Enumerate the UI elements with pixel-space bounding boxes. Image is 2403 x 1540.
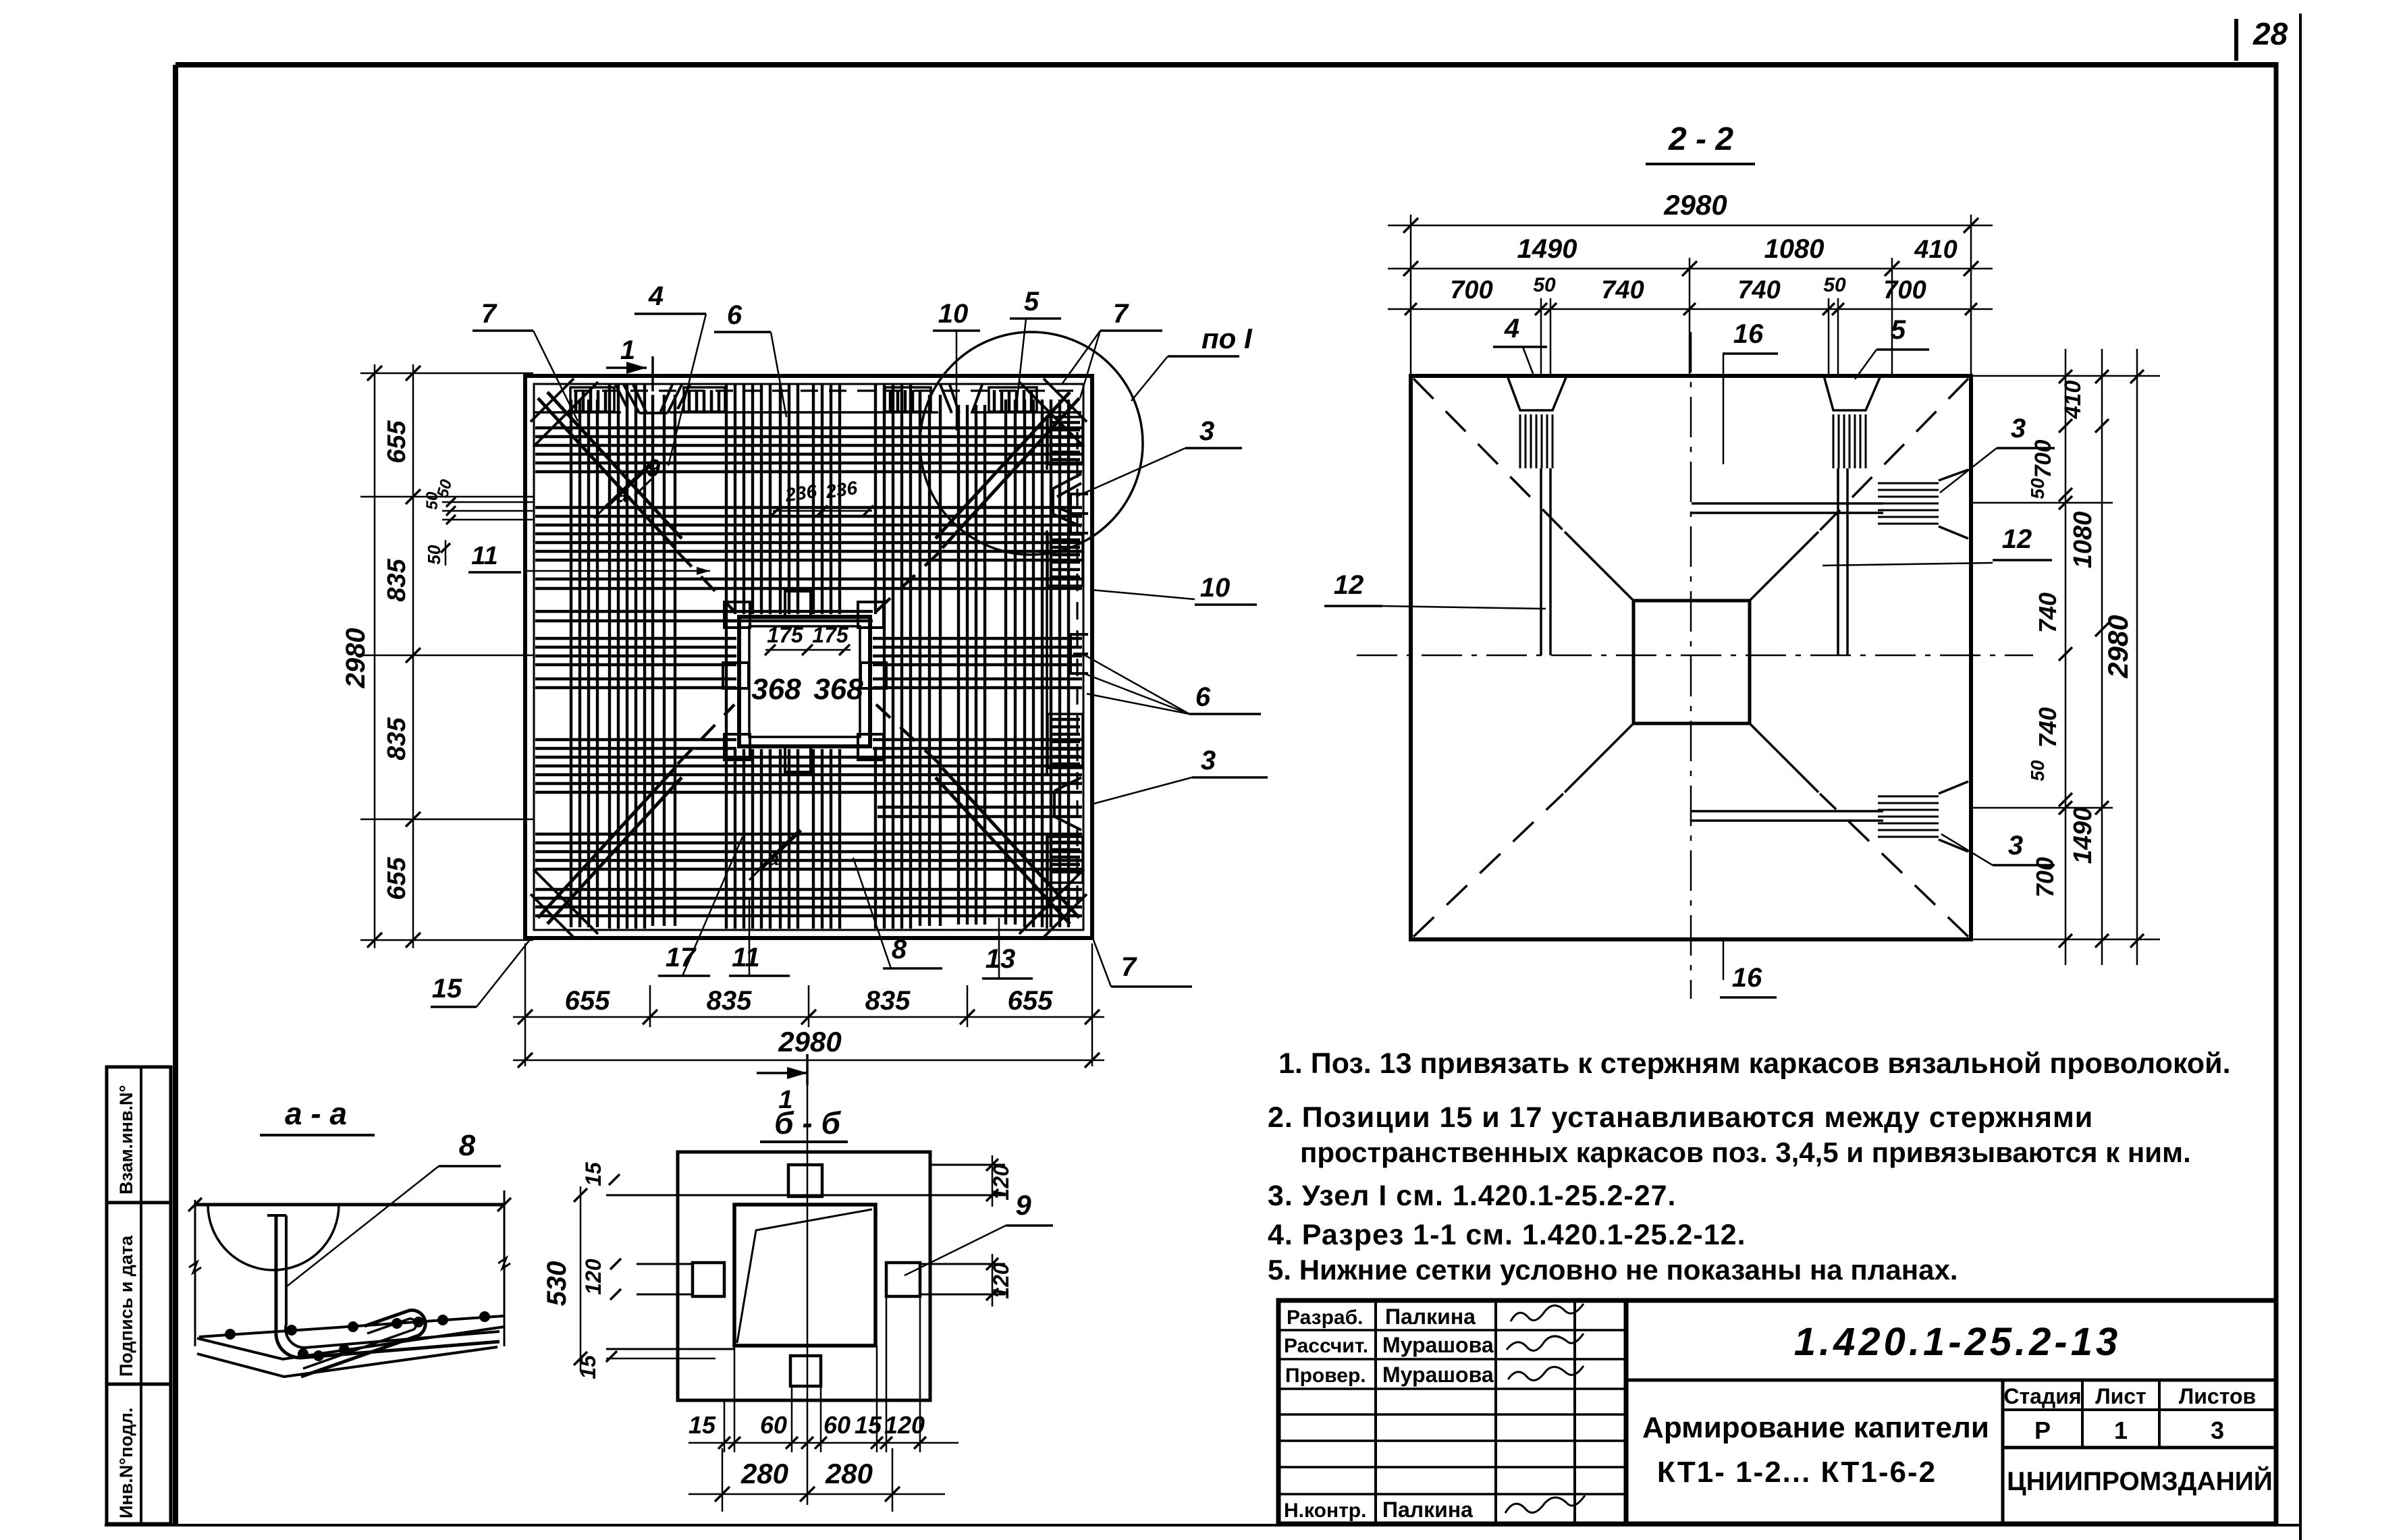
svg-text:6: 6 xyxy=(1195,682,1211,712)
plan horizontal rebar lines band 1 xyxy=(535,427,1082,429)
svg-text:Мурашова: Мурашова xyxy=(1382,1333,1494,1357)
plan vertical rebar lines fill group c xyxy=(1004,400,1007,925)
plan horizontal rebar lines band 2 xyxy=(535,506,1082,509)
plan vertical rebar lines group 6 xyxy=(874,385,877,614)
svg-text:120: 120 xyxy=(581,1259,605,1295)
svg-text:740: 740 xyxy=(1601,276,1644,304)
svg-text:10: 10 xyxy=(1200,573,1231,603)
svg-text:17: 17 xyxy=(666,943,697,972)
plan center column outer square xyxy=(739,617,870,746)
svg-text:3: 3 xyxy=(1201,746,1216,775)
plan right edge comb block 2 xyxy=(1048,534,1083,586)
plan detail circle po I xyxy=(920,332,1143,555)
svg-text:50: 50 xyxy=(1823,274,1846,296)
plan left overall dimension 2980 xyxy=(374,364,376,948)
detail b-b right top dim 120 xyxy=(930,1164,1005,1166)
section 2-2 label 16 bottom xyxy=(1723,939,1725,980)
detail b-b bottom dim row 15 60 60 15 120 xyxy=(688,1442,959,1444)
svg-text:700: 700 xyxy=(2031,857,2059,898)
svg-text:2 - 2: 2 - 2 xyxy=(1668,121,1733,157)
section 2-2 horizontal centerline dash-dot xyxy=(1357,655,2033,657)
section 2-2 dashed diagonal bottom-right xyxy=(1820,794,1968,937)
plan corner brace bottom-right diagonal xyxy=(942,768,1079,918)
svg-text:Армирование капители: Армирование капители xyxy=(1642,1411,1989,1444)
plan horizontal rebar lines band 7 xyxy=(535,888,1082,891)
svg-text:50: 50 xyxy=(2027,478,2048,499)
scanned page edge line right xyxy=(2299,13,2302,1540)
detail a-a sloped bar with U-hook xyxy=(301,1311,425,1377)
plan corner brace top-left diagonal xyxy=(538,398,675,548)
plan top section mark 1 xyxy=(606,366,647,369)
svg-text:а - а: а - а xyxy=(285,1096,347,1131)
title block outer border xyxy=(1278,1300,2276,1524)
plan horizontal rebar lines fill band c xyxy=(878,806,1082,808)
detail a-a hook bar position 8 vertical xyxy=(276,1215,500,1358)
title block doc number cell divider xyxy=(1626,1379,2276,1382)
plan horizontal rebar lines fill band b xyxy=(535,610,736,613)
plan top edge comb block 4 xyxy=(989,387,1037,412)
plan top band bottom line xyxy=(535,411,621,414)
svg-text:5: 5 xyxy=(1891,315,1906,345)
svg-text:7: 7 xyxy=(1113,299,1129,329)
svg-text:8: 8 xyxy=(459,1129,476,1162)
svg-text:1: 1 xyxy=(620,335,635,365)
svg-text:Палкина: Палкина xyxy=(1382,1497,1473,1522)
detail b-b horizontal line through top stirrup xyxy=(606,1194,1005,1197)
svg-text:Провер.: Провер. xyxy=(1285,1365,1366,1387)
svg-text:5: 5 xyxy=(1024,287,1039,317)
svg-text:пространственных каркасов поз.: пространственных каркасов поз. 3,4,5 и п… xyxy=(1300,1136,2191,1168)
plan horizontal rebar lines fill band a xyxy=(535,578,1082,580)
plan vertical rebar lines group 5 xyxy=(812,385,815,614)
svg-text:КТ1- 1-2... КТ1-6-2: КТ1- 1-2... КТ1-6-2 xyxy=(1657,1456,1937,1489)
section 2-2 vertical centerline dash-dot xyxy=(1690,332,1692,999)
detail a-a right edge xyxy=(504,1190,506,1346)
detail b-b right mid dim 120 xyxy=(992,1254,994,1307)
plan horizontal rebar lines band 4 xyxy=(535,678,736,680)
svg-text:Инв.N°подл.: Инв.N°подл. xyxy=(116,1408,136,1518)
svg-text:Рассчит.: Рассчит. xyxy=(1284,1335,1368,1357)
svg-text:5. Нижние сетки условно не пок: 5. Нижние сетки условно не показаны на п… xyxy=(1268,1254,1958,1286)
svg-text:а: а xyxy=(768,848,780,870)
plan right edge comb block 1 xyxy=(1048,417,1083,464)
svg-text:835: 835 xyxy=(707,986,752,1016)
svg-text:655: 655 xyxy=(383,420,411,463)
svg-text:368: 368 xyxy=(813,673,863,706)
title block row lines left part xyxy=(1278,1329,1626,1331)
section 2-2 dimension 2980 top xyxy=(1388,225,1993,227)
plan horizontal rebar lines band 3 xyxy=(535,637,736,640)
plan horizontal rebar lines band 6 xyxy=(535,833,1082,835)
svg-text:236: 236 xyxy=(783,480,818,505)
plan bottom extension lines xyxy=(524,943,526,1066)
svg-text:13: 13 xyxy=(986,944,1016,974)
section 2-2 dashed diagonal bottom-left xyxy=(1413,794,1563,937)
section 2-2 inner column square xyxy=(1633,601,1750,723)
plan view outer border square xyxy=(525,376,1092,938)
svg-text:740: 740 xyxy=(2034,707,2061,748)
section 2-2 solid slope diagonals at column xyxy=(1565,532,1633,601)
detail b-b bottom dim row 280 280 xyxy=(688,1493,945,1495)
plan vertical rebar lines group 4 xyxy=(779,385,782,614)
svg-text:3: 3 xyxy=(2011,414,2026,443)
svg-text:120: 120 xyxy=(989,1164,1013,1201)
plan horizontal rebar lines band 5 xyxy=(535,738,736,741)
svg-text:15: 15 xyxy=(576,1354,600,1379)
svg-text:Разраб.: Разраб. xyxy=(1287,1307,1363,1329)
svg-text:1. Поз. 13 привязать к стержня: 1. Поз. 13 привязать к стержням каркасов… xyxy=(1278,1047,2231,1080)
detail b-b left dimension 530 xyxy=(580,1186,582,1371)
detail b-b left stirrup square xyxy=(693,1263,724,1296)
title block signature squiggles xyxy=(1511,1304,1584,1321)
section 2-2 right overall dimension 2980 xyxy=(2136,349,2138,965)
svg-text:655: 655 xyxy=(565,986,610,1016)
plan vertical rebar lines group 8 xyxy=(1023,400,1026,927)
plan section cut mark a-a bottom-left xyxy=(760,830,801,869)
svg-text:50: 50 xyxy=(1533,274,1556,296)
svg-text:368: 368 xyxy=(751,673,801,706)
plan corner brace top-right diagonal xyxy=(942,398,1079,548)
svg-text:Мурашова: Мурашова xyxy=(1382,1363,1494,1387)
svg-text:16: 16 xyxy=(1732,963,1762,993)
detail b-b mesh diagonal line xyxy=(737,1209,872,1343)
svg-text:740: 740 xyxy=(1737,276,1780,304)
svg-text:16: 16 xyxy=(1733,319,1764,349)
svg-text:700: 700 xyxy=(1450,276,1492,304)
svg-text:ЦНИИПРОМЗДАНИЙ: ЦНИИПРОМЗДАНИЙ xyxy=(2007,1466,2273,1496)
section 2-2 dimension row 1490 1080 410 xyxy=(1388,268,1993,270)
plan left extension lines xyxy=(360,373,533,375)
plan vertical rebar lines group 1 xyxy=(570,400,572,927)
plan right funnel 1 xyxy=(1053,474,1081,489)
svg-text:3: 3 xyxy=(1199,416,1214,446)
svg-text:236: 236 xyxy=(823,477,859,502)
detail b-b outer square xyxy=(678,1152,930,1400)
svg-text:2. Позиции 15 и 17 устанавлив: 2. Позиции 15 и 17 устанавливаются между… xyxy=(1268,1101,2093,1134)
plan right edge E-shape anchor 2 xyxy=(1071,634,1088,673)
detail b-b extension line below inner square xyxy=(606,1348,734,1350)
svg-text:15: 15 xyxy=(581,1161,605,1186)
left margin stamp box Vzam.inv.N xyxy=(107,1067,171,1203)
plan top funnel 1 hatches xyxy=(616,385,628,409)
section 2-2 carcass 4 funnel and bars xyxy=(1507,376,1567,410)
svg-text:Палкина: Палкина xyxy=(1385,1304,1476,1329)
detail b-b right stirrup square xyxy=(886,1263,920,1296)
svg-text:Лист: Лист xyxy=(2095,1384,2146,1408)
detail a-a semicircle arc xyxy=(208,1205,339,1270)
svg-text:1.420.1-25.2-13: 1.420.1-25.2-13 xyxy=(1794,1320,2122,1364)
svg-text:по I: по I xyxy=(1201,323,1253,354)
drawing frame border xyxy=(175,62,2276,67)
svg-text:Стадия: Стадия xyxy=(2003,1384,2081,1408)
plan center column inner square xyxy=(749,626,860,737)
svg-text:2980: 2980 xyxy=(341,628,371,689)
svg-text:15: 15 xyxy=(432,974,462,1003)
svg-text:655: 655 xyxy=(1008,986,1053,1016)
left margin stamp box Inv.N podl xyxy=(107,1384,171,1524)
svg-text:655: 655 xyxy=(383,856,411,900)
plan view inner border square xyxy=(534,384,1083,930)
plan vertical rebar lines group 7 xyxy=(957,405,960,925)
svg-text:1080: 1080 xyxy=(2069,512,2097,569)
svg-text:2980: 2980 xyxy=(778,1026,841,1057)
svg-text:Листов: Листов xyxy=(2179,1384,2256,1408)
title block vertical dividers left part xyxy=(1374,1300,1377,1524)
plan bottom section mark 1 xyxy=(757,1072,807,1074)
plan vertical rebar lines fill group a xyxy=(651,395,654,926)
svg-text:1490: 1490 xyxy=(1517,234,1577,264)
detail a-a slab top line xyxy=(195,1203,505,1207)
plan corner brace bottom-left diagonal xyxy=(538,768,675,918)
detail a-a mesh bottom bar with cross dots xyxy=(199,1316,504,1337)
svg-text:120: 120 xyxy=(884,1411,925,1439)
plan left dimension chain 655 835 835 655 xyxy=(412,364,414,948)
section 2-2 dimension row 700 50 740 740 50 700 xyxy=(1388,308,1993,310)
svg-text:175: 175 xyxy=(812,623,849,647)
svg-text:4. Разрез 1-1 см. 1.420.1-: 4. Разрез 1-1 см. 1.420.1-25.2-12. xyxy=(1268,1219,1746,1251)
svg-text:835: 835 xyxy=(383,717,411,760)
section 2-2 right dimension chain middle xyxy=(2101,349,2103,965)
svg-text:11: 11 xyxy=(732,943,760,972)
plan top edge comb block 2 xyxy=(684,387,725,412)
plan bottom overall dimension 2980 xyxy=(513,1060,1104,1062)
plan center column corner stirrup squares xyxy=(724,602,750,628)
detail a-a left edge xyxy=(194,1200,196,1346)
svg-text:1: 1 xyxy=(2114,1417,2128,1444)
svg-text:3: 3 xyxy=(2008,831,2023,860)
section 2-2 top dimension extension lines xyxy=(1410,215,1412,376)
svg-text:12: 12 xyxy=(1334,570,1364,600)
svg-text:50: 50 xyxy=(424,545,444,564)
plan vertical rebar lines group 3 xyxy=(725,385,728,929)
svg-text:700: 700 xyxy=(1883,276,1926,304)
svg-text:7: 7 xyxy=(481,299,497,329)
svg-text:Подпись и дата: Подпись и дата xyxy=(116,1235,136,1377)
svg-text:4: 4 xyxy=(648,281,664,311)
svg-text:9: 9 xyxy=(1015,1189,1031,1221)
svg-text:10: 10 xyxy=(938,299,969,329)
svg-text:2980: 2980 xyxy=(2102,615,2134,678)
detail a-a bottom slab boundary lower xyxy=(197,1347,497,1377)
svg-text:12: 12 xyxy=(2002,524,2032,554)
plan right funnel 2 xyxy=(1054,777,1081,791)
plan top funnel 1 xyxy=(624,385,639,413)
left margin stamp box Podpis i data xyxy=(107,1203,171,1384)
svg-text:6: 6 xyxy=(727,300,742,330)
svg-text:120: 120 xyxy=(989,1263,1013,1299)
plan top funnel 2 xyxy=(940,385,952,413)
svg-text:3: 3 xyxy=(2211,1417,2224,1444)
svg-text:530: 530 xyxy=(542,1261,572,1307)
svg-text:Взам.инв.N°: Взам.инв.N° xyxy=(116,1085,136,1194)
svg-text:15: 15 xyxy=(688,1411,716,1439)
plan right edge comb block 4 xyxy=(1048,837,1083,883)
svg-text:Р: Р xyxy=(2034,1417,2051,1444)
svg-text:28: 28 xyxy=(2252,16,2288,51)
plan vertical rebar lines fill group b xyxy=(919,395,921,926)
svg-text:1490: 1490 xyxy=(2069,807,2097,864)
plan bottom dimension chain 655 835 835 655 xyxy=(513,1016,1104,1018)
detail b-b bottom stirrup square xyxy=(790,1356,821,1386)
svg-text:15: 15 xyxy=(855,1411,882,1439)
title block right sub-table xyxy=(2001,1380,2005,1524)
detail a-a bottom slab boundary upper xyxy=(197,1327,504,1359)
svg-text:11: 11 xyxy=(471,542,497,570)
svg-text:740: 740 xyxy=(2034,593,2061,633)
plan top edge comb block 3 xyxy=(885,387,931,412)
svg-text:410: 410 xyxy=(2060,381,2086,420)
plan right edge E-shape anchor 1 xyxy=(1071,494,1088,533)
svg-text:700: 700 xyxy=(2030,440,2056,478)
plan center column edge stirrup squares xyxy=(785,591,811,617)
plan vertical rebar lines group 2 xyxy=(608,385,611,929)
svg-text:4: 4 xyxy=(1504,314,1519,343)
svg-text:410: 410 xyxy=(1914,236,1957,264)
section 2-2 right extension lines xyxy=(1971,375,2160,377)
detail b-b vertical centerline xyxy=(807,1055,809,1505)
svg-text:3. Узел I см. 1.420.1-25.2-27.: 3. Узел I см. 1.420.1-25.2-27. xyxy=(1268,1180,1676,1212)
svg-text:8: 8 xyxy=(892,935,907,964)
svg-text:2980: 2980 xyxy=(1663,189,1727,221)
svg-text:1080: 1080 xyxy=(1764,234,1825,264)
plan left small 50 dimensions xyxy=(442,501,533,503)
svg-text:175: 175 xyxy=(767,623,804,647)
plan top edge comb block 1 xyxy=(570,387,614,412)
plan top band dashed line xyxy=(574,389,1073,391)
section 2-2 horizontal carcass 3 lower xyxy=(1692,810,1883,813)
plan right band dashed line xyxy=(1076,432,1078,904)
section 2-2 right dimension chain detail xyxy=(2065,349,2067,965)
plan right edge comb block 3 xyxy=(1048,714,1083,768)
svg-text:280: 280 xyxy=(740,1458,788,1489)
detail b-b inner square xyxy=(734,1205,875,1346)
svg-text:835: 835 xyxy=(865,986,911,1016)
plan section cut mark a-a top-left xyxy=(605,462,653,507)
section 2-2 dashed diagonal top-right xyxy=(1820,379,1968,530)
svg-text:Н.контр.: Н.контр. xyxy=(1284,1500,1366,1522)
svg-text:а: а xyxy=(616,483,628,507)
section 2-2 carcass 5 funnel and bars xyxy=(1824,376,1881,410)
plan right band inner line xyxy=(1046,418,1048,470)
section 2-2 outline square xyxy=(1411,376,1971,939)
detail b-b bottom extension lines xyxy=(724,1400,726,1452)
svg-text:9: 9 xyxy=(647,454,660,482)
svg-text:60: 60 xyxy=(823,1411,850,1439)
svg-text:835: 835 xyxy=(383,558,411,601)
detail b-b top stirrup square xyxy=(788,1165,822,1197)
svg-text:7: 7 xyxy=(1121,952,1137,982)
svg-text:60: 60 xyxy=(760,1411,787,1439)
section 2-2 dashed diagonal top-left xyxy=(1413,379,1563,530)
plan leader line position 11 left xyxy=(526,570,710,572)
section 2-2 horizontal carcass 3 upper xyxy=(1692,502,1883,505)
svg-text:50: 50 xyxy=(2027,760,2048,781)
svg-text:280: 280 xyxy=(825,1458,873,1489)
